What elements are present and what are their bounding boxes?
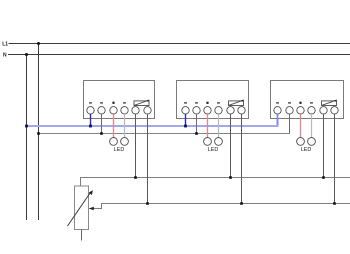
svg-text:LED: LED	[114, 147, 125, 153]
svg-text:LED: LED	[208, 147, 219, 153]
svg-text:L1: L1	[2, 41, 8, 47]
svg-text:LED: LED	[301, 147, 312, 153]
svg-text:N: N	[3, 53, 7, 59]
